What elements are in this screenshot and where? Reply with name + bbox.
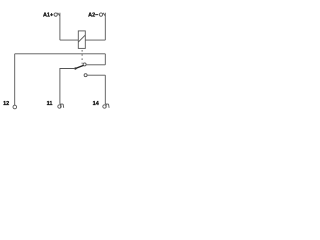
coil diagonal bbox=[78, 35, 85, 42]
svg-text:14: 14 bbox=[93, 101, 100, 107]
terminal 12 circle bbox=[13, 105, 17, 109]
wire riser 14 bbox=[104, 75, 106, 104]
plug fork 14 bbox=[105, 104, 109, 108]
actuation dashed link bbox=[81, 50, 83, 64]
NC fixed contact bbox=[83, 63, 86, 66]
svg-text:A1+: A1+ bbox=[43, 12, 53, 18]
svg-text:12: 12 bbox=[3, 101, 9, 107]
wire riser 12 bbox=[14, 54, 16, 105]
terminal 11 circle bbox=[58, 105, 61, 108]
switch arm bbox=[75, 65, 83, 68]
pivot dot bbox=[74, 67, 76, 69]
terminal A2 circle bbox=[99, 13, 102, 16]
wire NC return leg bbox=[104, 54, 106, 65]
svg-text:11: 11 bbox=[47, 101, 53, 107]
plug fork A1 bbox=[58, 13, 60, 18]
relay coil K1 box bbox=[78, 31, 85, 48]
wire pivot to 11 bbox=[60, 69, 76, 104]
wire NO line bbox=[87, 74, 105, 76]
wire A1 riser bbox=[59, 18, 61, 40]
NO fixed contact bbox=[84, 74, 87, 77]
wire NC line bbox=[86, 64, 105, 66]
svg-text:A2−: A2− bbox=[88, 12, 98, 18]
wire A1 to coil bbox=[60, 39, 78, 41]
wire A2 riser bbox=[104, 18, 106, 40]
plug fork A2 bbox=[103, 13, 105, 18]
terminal A1 circle bbox=[54, 13, 57, 16]
wire A2 to coil bbox=[85, 39, 105, 41]
terminal 14 circle bbox=[103, 105, 106, 108]
plug fork 11 bbox=[60, 104, 64, 108]
wire rail to 12 bbox=[15, 53, 106, 55]
